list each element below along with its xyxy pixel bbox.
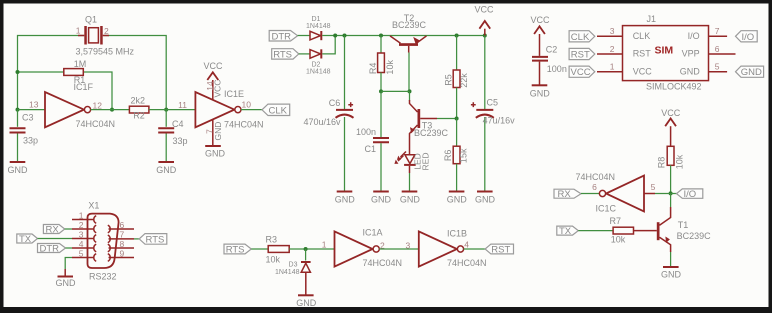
svg-text:6: 6: [120, 220, 125, 230]
wire (IC1A out to IC1B in): [379, 248, 419, 250]
wire (oscillator top loop): [18, 36, 167, 110]
svg-text:VCC: VCC: [633, 66, 653, 76]
svg-text:1N4148: 1N4148: [306, 69, 331, 76]
svg-text:15k: 15k: [459, 148, 469, 163]
inverter gate IC1E: [178, 80, 263, 146]
svg-text:X1: X1: [88, 201, 99, 211]
svg-text:R8: R8: [657, 157, 667, 169]
svg-text:5: 5: [715, 62, 720, 72]
resistor R7: [610, 216, 634, 245]
svg-text:BC239C: BC239C: [677, 231, 712, 241]
wire (T2 base to node): [408, 53, 410, 92]
wire (IC1E output to CLK): [241, 109, 262, 111]
pin 1: [597, 71, 623, 73]
wire (R4/C1 node to T3 collector node): [381, 90, 410, 92]
svg-text:1: 1: [79, 210, 84, 220]
X1 pin 1: [72, 210, 96, 223]
transistor T1 BC239C: [657, 207, 711, 266]
resistor R2: [129, 96, 149, 121]
svg-text:C1: C1: [365, 144, 377, 154]
svg-text:1: 1: [610, 62, 615, 72]
svg-text:R6: R6: [443, 150, 453, 162]
svg-text:10: 10: [242, 99, 252, 109]
wire (R3 to IC1A pin 1): [289, 248, 334, 250]
svg-text:C6: C6: [329, 98, 341, 108]
svg-text:13: 13: [29, 99, 39, 109]
ground (under C4): [156, 162, 177, 175]
wire (IC1C pin 5 to I/O node): [644, 193, 655, 195]
connector X1 RS232 outline: [88, 201, 119, 282]
pin 7: [709, 35, 728, 37]
svg-text:33p: 33p: [23, 136, 38, 146]
svg-text:GND: GND: [335, 195, 356, 205]
svg-text:RTS: RTS: [273, 49, 292, 60]
net flag I/O (from J1 pin 7): [736, 31, 758, 43]
svg-text:GND: GND: [661, 270, 682, 280]
svg-text:11: 11: [178, 100, 187, 110]
wire (RTS to R3): [251, 248, 268, 250]
net flag RX (to X1 pin 2): [43, 224, 72, 235]
net flag TX (drive): [557, 226, 579, 237]
svg-text:DTR: DTR: [40, 243, 60, 254]
wire (main VCC rail row): [322, 35, 485, 37]
wire (D2 up to main node): [322, 36, 335, 54]
svg-text:33p: 33p: [173, 136, 188, 146]
X1 pin 5: [72, 248, 96, 261]
wire (R7 to T1 base): [634, 230, 657, 232]
svg-text:GND: GND: [56, 278, 77, 288]
net flag CLK: [262, 104, 290, 116]
ground (under C6): [335, 192, 356, 205]
svg-text:RTS: RTS: [226, 245, 245, 256]
svg-text:IC1C: IC1C: [596, 203, 617, 213]
X1 pin 4: [72, 239, 96, 252]
net flag TX (to X1 pin 3): [17, 234, 72, 245]
svg-text:RST: RST: [633, 49, 652, 59]
X1 pin 3: [72, 229, 96, 242]
svg-text:VCC: VCC: [213, 80, 223, 98]
svg-text:5: 5: [651, 182, 656, 192]
net flag RTS (from X1 pin 7): [134, 234, 167, 246]
ground (under C2): [530, 85, 551, 98]
svg-text:10k: 10k: [611, 235, 626, 245]
svg-text:10k: 10k: [675, 154, 685, 169]
svg-text:Q1: Q1: [85, 15, 97, 25]
node junction (380.8,91.4): [379, 89, 383, 93]
wire (X1 pin 5 to ground): [65, 258, 72, 270]
supply VCC (above IC1E): [203, 61, 223, 80]
svg-text:RX: RX: [46, 224, 60, 235]
ground (IC1E pin 7): [205, 146, 226, 159]
wire (DTR to D1): [298, 35, 310, 37]
X1 pin 7: [108, 230, 134, 243]
connector J1 SIMLOCK492: [597, 14, 736, 92]
ground (X1 pin 5): [56, 269, 77, 288]
net flag RST: [485, 244, 513, 255]
node junction (17.5,72): [16, 70, 20, 74]
svg-text:C3: C3: [22, 112, 34, 122]
net flag DTR: [269, 31, 297, 43]
capacitor C1: [356, 91, 389, 190]
svg-text:GND: GND: [530, 89, 551, 99]
supply VCC (above R8): [661, 108, 681, 146]
diode D3 1N4148 (clamp to ground): [275, 262, 311, 295]
node junction (335.2,35.5): [333, 34, 337, 38]
svg-text:2k2: 2k2: [131, 96, 146, 106]
wire (node down to D3): [305, 249, 307, 261]
LED red: [394, 152, 430, 191]
svg-text:BC239C: BC239C: [392, 20, 427, 30]
svg-text:BC239C: BC239C: [414, 128, 449, 138]
capacitor C5 electrolytic: [471, 36, 515, 191]
svg-text:3: 3: [406, 240, 411, 250]
svg-text:470u/16v: 470u/16v: [304, 117, 342, 127]
wire (R1 feedback row): [18, 72, 113, 110]
wire (RX to IC1C bubble): [581, 193, 599, 195]
supply VCC (middle rail): [474, 5, 494, 36]
pin 5: [709, 71, 728, 73]
inverter gate IC1A: [322, 228, 402, 269]
svg-text:I/O: I/O: [684, 189, 697, 200]
inverter gate IC1B: [419, 228, 487, 268]
svg-text:RST: RST: [491, 245, 510, 256]
svg-text:6: 6: [715, 44, 720, 54]
net flag CLK (to J1): [569, 31, 595, 43]
net flag RTS (source): [224, 244, 251, 255]
svg-text:5: 5: [79, 248, 84, 258]
svg-text:100n: 100n: [547, 64, 567, 74]
svg-text:6: 6: [592, 182, 597, 192]
svg-text:1N4148: 1N4148: [275, 269, 300, 276]
svg-text:R4: R4: [368, 63, 378, 75]
wire (T3 base to divider): [437, 118, 457, 120]
wire (pin13 input): [18, 109, 46, 111]
svg-text:47u/16v: 47u/16v: [483, 115, 516, 125]
svg-text:GND: GND: [475, 195, 496, 205]
svg-text:IC1F: IC1F: [74, 82, 94, 92]
net flag I/O (bottom): [677, 189, 703, 200]
svg-text:IC1E: IC1E: [224, 89, 244, 99]
capacitor C6 electrolytic: [304, 36, 354, 191]
svg-text:R5: R5: [443, 74, 453, 86]
ground (under C5): [475, 192, 496, 205]
svg-text:GND: GND: [680, 66, 701, 76]
crystal Q1: [76, 15, 135, 57]
svg-text:100n: 100n: [356, 127, 376, 137]
wire: [38, 238, 73, 240]
net flag VCC (to J1): [569, 66, 595, 78]
svg-text:IC1B: IC1B: [447, 228, 467, 238]
svg-text:RX: RX: [558, 189, 572, 200]
ground (under C1): [371, 192, 392, 205]
svg-text:74HC04N: 74HC04N: [363, 258, 403, 268]
net flag RST (to J1): [569, 48, 595, 60]
wire (IC1B out to RST): [464, 248, 486, 250]
pin 14 VCC of IC1E: [212, 80, 214, 100]
node junction (456.6,35.5): [455, 34, 459, 38]
svg-text:9: 9: [120, 248, 125, 258]
svg-text:VPP: VPP: [682, 49, 700, 59]
svg-text:GND: GND: [296, 298, 317, 308]
pin 3: [597, 35, 623, 37]
node junction (344.5,35.5): [343, 34, 347, 38]
svg-text:IC1A: IC1A: [363, 228, 383, 238]
transistor T3 BC239C (mirrored): [410, 91, 449, 154]
svg-text:10k: 10k: [266, 255, 281, 265]
svg-text:I/O: I/O: [742, 32, 755, 43]
svg-text:R3: R3: [266, 234, 278, 244]
node junction (166.2,109.6): [164, 108, 168, 112]
svg-text:D3: D3: [289, 262, 298, 269]
supply VCC (above C2): [530, 15, 550, 56]
node junction (456.6,118.5): [455, 117, 459, 121]
svg-text:3,579545 MHz: 3,579545 MHz: [76, 47, 135, 57]
svg-text:RST: RST: [571, 50, 590, 61]
ground (under R6): [447, 192, 468, 205]
ground (under LED): [400, 192, 421, 205]
svg-text:C4: C4: [172, 119, 184, 129]
svg-text:3: 3: [610, 26, 615, 36]
net flag DTR (to X1 pin 4): [38, 243, 73, 254]
wire (node to I/O flag): [671, 193, 677, 195]
capacitor C4: [158, 110, 187, 161]
X1 pin 9: [108, 248, 134, 261]
ground (under C3): [8, 162, 29, 175]
svg-text:1: 1: [322, 240, 327, 250]
svg-text:GND: GND: [156, 165, 177, 175]
node junction (17.5,109.6): [16, 108, 20, 112]
svg-text:GND: GND: [371, 195, 392, 205]
svg-text:CLK: CLK: [269, 105, 288, 116]
pin 7 GND of IC1E: [212, 120, 214, 146]
svg-text:SIM: SIM: [655, 45, 674, 57]
ground (under T1): [661, 267, 682, 280]
net flag RTS (top): [272, 49, 299, 61]
svg-text:R2: R2: [133, 111, 145, 121]
node junction (670.6,193.4): [669, 191, 673, 195]
pin 6: [709, 53, 736, 55]
svg-text:1M: 1M: [74, 59, 87, 69]
svg-text:RTS: RTS: [146, 234, 165, 245]
svg-text:D2: D2: [312, 62, 321, 69]
wire (R2 to IC1E pin 11): [149, 109, 196, 111]
svg-text:VCC: VCC: [661, 108, 681, 118]
svg-text:1: 1: [76, 26, 81, 36]
diode D1 1N4148: [306, 16, 331, 40]
transistor T2 BC239C: [390, 13, 427, 53]
svg-text:CLK: CLK: [571, 32, 590, 43]
resistor R5: [443, 36, 469, 119]
node junction (112,109.6): [110, 108, 114, 112]
svg-text:GND: GND: [213, 122, 223, 141]
svg-text:I/O: I/O: [688, 31, 700, 41]
svg-text:D1: D1: [312, 16, 321, 23]
net flag GND (from J1 pin 5): [736, 66, 764, 78]
svg-text:74HC04N: 74HC04N: [76, 119, 116, 129]
svg-text:TX: TX: [19, 234, 32, 245]
svg-text:VCC: VCC: [203, 61, 223, 71]
resistor R4: [368, 36, 395, 92]
inverter gate IC1C (mirrored, output left): [576, 172, 656, 213]
svg-text:GND: GND: [205, 149, 226, 159]
svg-text:74HC04N: 74HC04N: [224, 120, 264, 130]
svg-text:2: 2: [104, 26, 109, 36]
pin 2: [597, 53, 623, 55]
svg-text:SIMLOCK492: SIMLOCK492: [646, 82, 702, 92]
wire (RTS to D2): [299, 53, 310, 55]
svg-text:J1: J1: [647, 14, 657, 24]
svg-text:DTR: DTR: [272, 31, 292, 42]
node junction (305.6,249): [304, 247, 308, 251]
diode D2 1N4148: [306, 49, 331, 75]
resistor R3: [266, 234, 290, 264]
capacitor C2: [532, 44, 567, 85]
svg-text:4: 4: [79, 239, 84, 249]
svg-text:VCC: VCC: [530, 15, 550, 25]
X1 pin 6: [108, 220, 134, 233]
svg-text:74HC04N: 74HC04N: [576, 172, 616, 182]
svg-text:7: 7: [715, 26, 720, 36]
svg-text:CLK: CLK: [633, 31, 651, 41]
svg-text:GND: GND: [400, 195, 421, 205]
svg-text:2: 2: [610, 44, 615, 54]
ground (under D3): [296, 295, 317, 308]
X1 pin 8: [108, 239, 134, 252]
resistor R6: [443, 119, 469, 191]
capacitor C3: [10, 110, 39, 161]
svg-text:VCC: VCC: [474, 5, 494, 15]
svg-text:C2: C2: [546, 44, 558, 54]
svg-text:8: 8: [120, 239, 125, 249]
svg-text:1N4148: 1N4148: [306, 23, 331, 30]
node junction (381,35.5): [379, 34, 383, 38]
wire: [65, 228, 72, 230]
svg-text:C5: C5: [487, 98, 499, 108]
wire (node down to T1 collector): [670, 194, 672, 208]
svg-text:12: 12: [93, 100, 103, 110]
svg-text:22k: 22k: [459, 73, 469, 88]
svg-text:2: 2: [79, 220, 84, 230]
inverter gate IC1F: [29, 82, 115, 129]
svg-text:GND: GND: [8, 165, 29, 175]
svg-text:74HC04N: 74HC04N: [447, 258, 487, 268]
svg-text:GND: GND: [741, 67, 762, 78]
svg-text:T1: T1: [678, 220, 689, 230]
svg-text:VCC: VCC: [571, 67, 591, 78]
node junction (484.8,35.5): [483, 34, 487, 38]
wire (TX to R7): [578, 230, 613, 232]
svg-text:10k: 10k: [385, 60, 395, 75]
X1 pin 2: [72, 220, 96, 233]
svg-text:4: 4: [464, 240, 469, 250]
wire (IC1F out to R2): [91, 109, 130, 111]
svg-text:GND: GND: [447, 195, 468, 205]
svg-text:3: 3: [79, 229, 84, 239]
svg-text:TX: TX: [559, 226, 572, 237]
node junction (409.5,91.4): [408, 89, 412, 93]
net flag RX (inverter output): [554, 189, 581, 200]
resistor R8: [657, 146, 685, 193]
svg-text:RS232: RS232: [89, 272, 117, 282]
svg-text:RED: RED: [421, 153, 431, 171]
resistor R1: [64, 59, 86, 85]
wire: [66, 247, 73, 249]
svg-text:R7: R7: [610, 216, 622, 226]
